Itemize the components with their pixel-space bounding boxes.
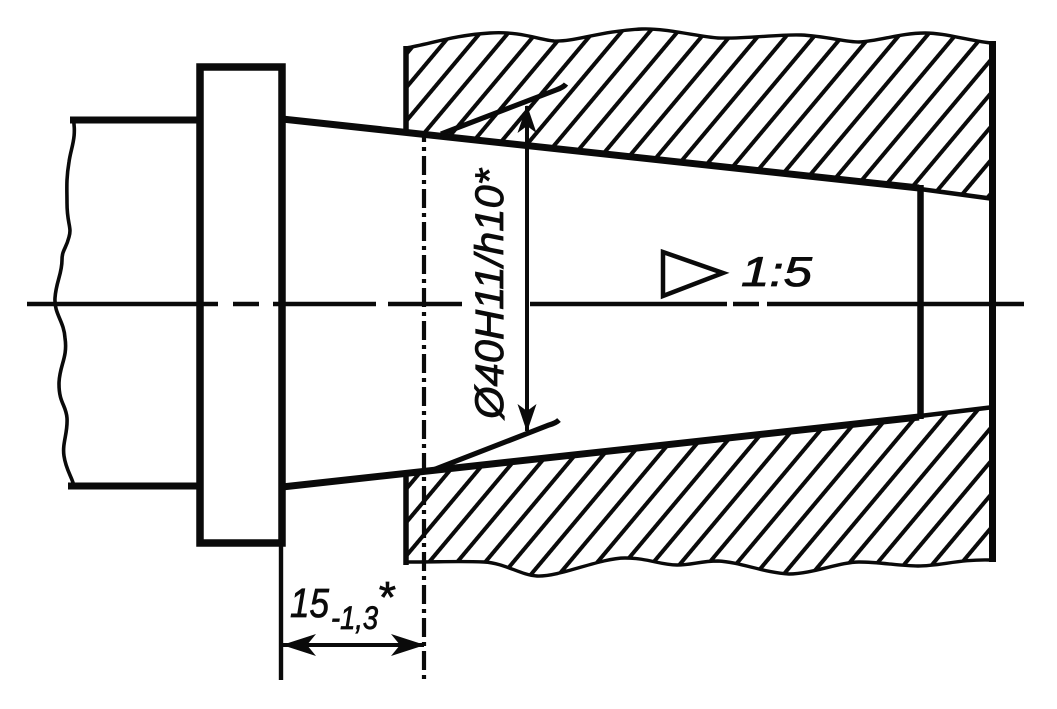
flange (collar) xyxy=(200,67,282,543)
hub upper left face xyxy=(403,46,409,135)
arrowhead down xyxy=(518,404,537,432)
hub lower half hatching xyxy=(395,400,1005,590)
svg-text:15: 15 xyxy=(290,580,329,626)
hub bore line lower (beyond cone end) xyxy=(920,407,994,416)
hub bore line upper (beyond cone end) xyxy=(920,189,994,199)
hub lower break edge (wavy bottom) xyxy=(406,558,991,576)
svg-text:-1,3: -1,3 xyxy=(331,600,378,636)
hub upper break edge (wavy top) xyxy=(406,29,991,48)
arrowhead right xyxy=(391,634,425,656)
centerline (horizontal axis) xyxy=(27,302,1024,306)
shaft bottom edge xyxy=(68,483,202,490)
shaft top edge xyxy=(70,117,202,124)
dimension line Ø40 xyxy=(525,106,529,431)
oblique extension line bottom xyxy=(433,420,559,470)
arrowhead up xyxy=(518,105,537,133)
hub lower left face xyxy=(403,472,409,565)
dimension line 15 xyxy=(283,643,424,647)
oblique extension line top xyxy=(441,84,566,134)
gauge plane chain line xyxy=(422,132,426,681)
cone end face xyxy=(917,185,924,419)
shaft break line (wavy) xyxy=(55,117,74,486)
svg-text:Ø40H11/h10*: Ø40H11/h10* xyxy=(468,168,512,422)
cone bottom edge xyxy=(282,417,919,487)
svg-text:1:5: 1:5 xyxy=(741,248,813,295)
arrowhead left xyxy=(282,634,316,656)
extension line from flange face xyxy=(279,543,283,680)
hub upper half hatching xyxy=(395,20,1005,210)
cone top edge xyxy=(282,119,919,188)
hub right edge xyxy=(989,41,996,562)
svg-text:*: * xyxy=(377,573,396,622)
taper symbol triangle xyxy=(663,252,723,296)
